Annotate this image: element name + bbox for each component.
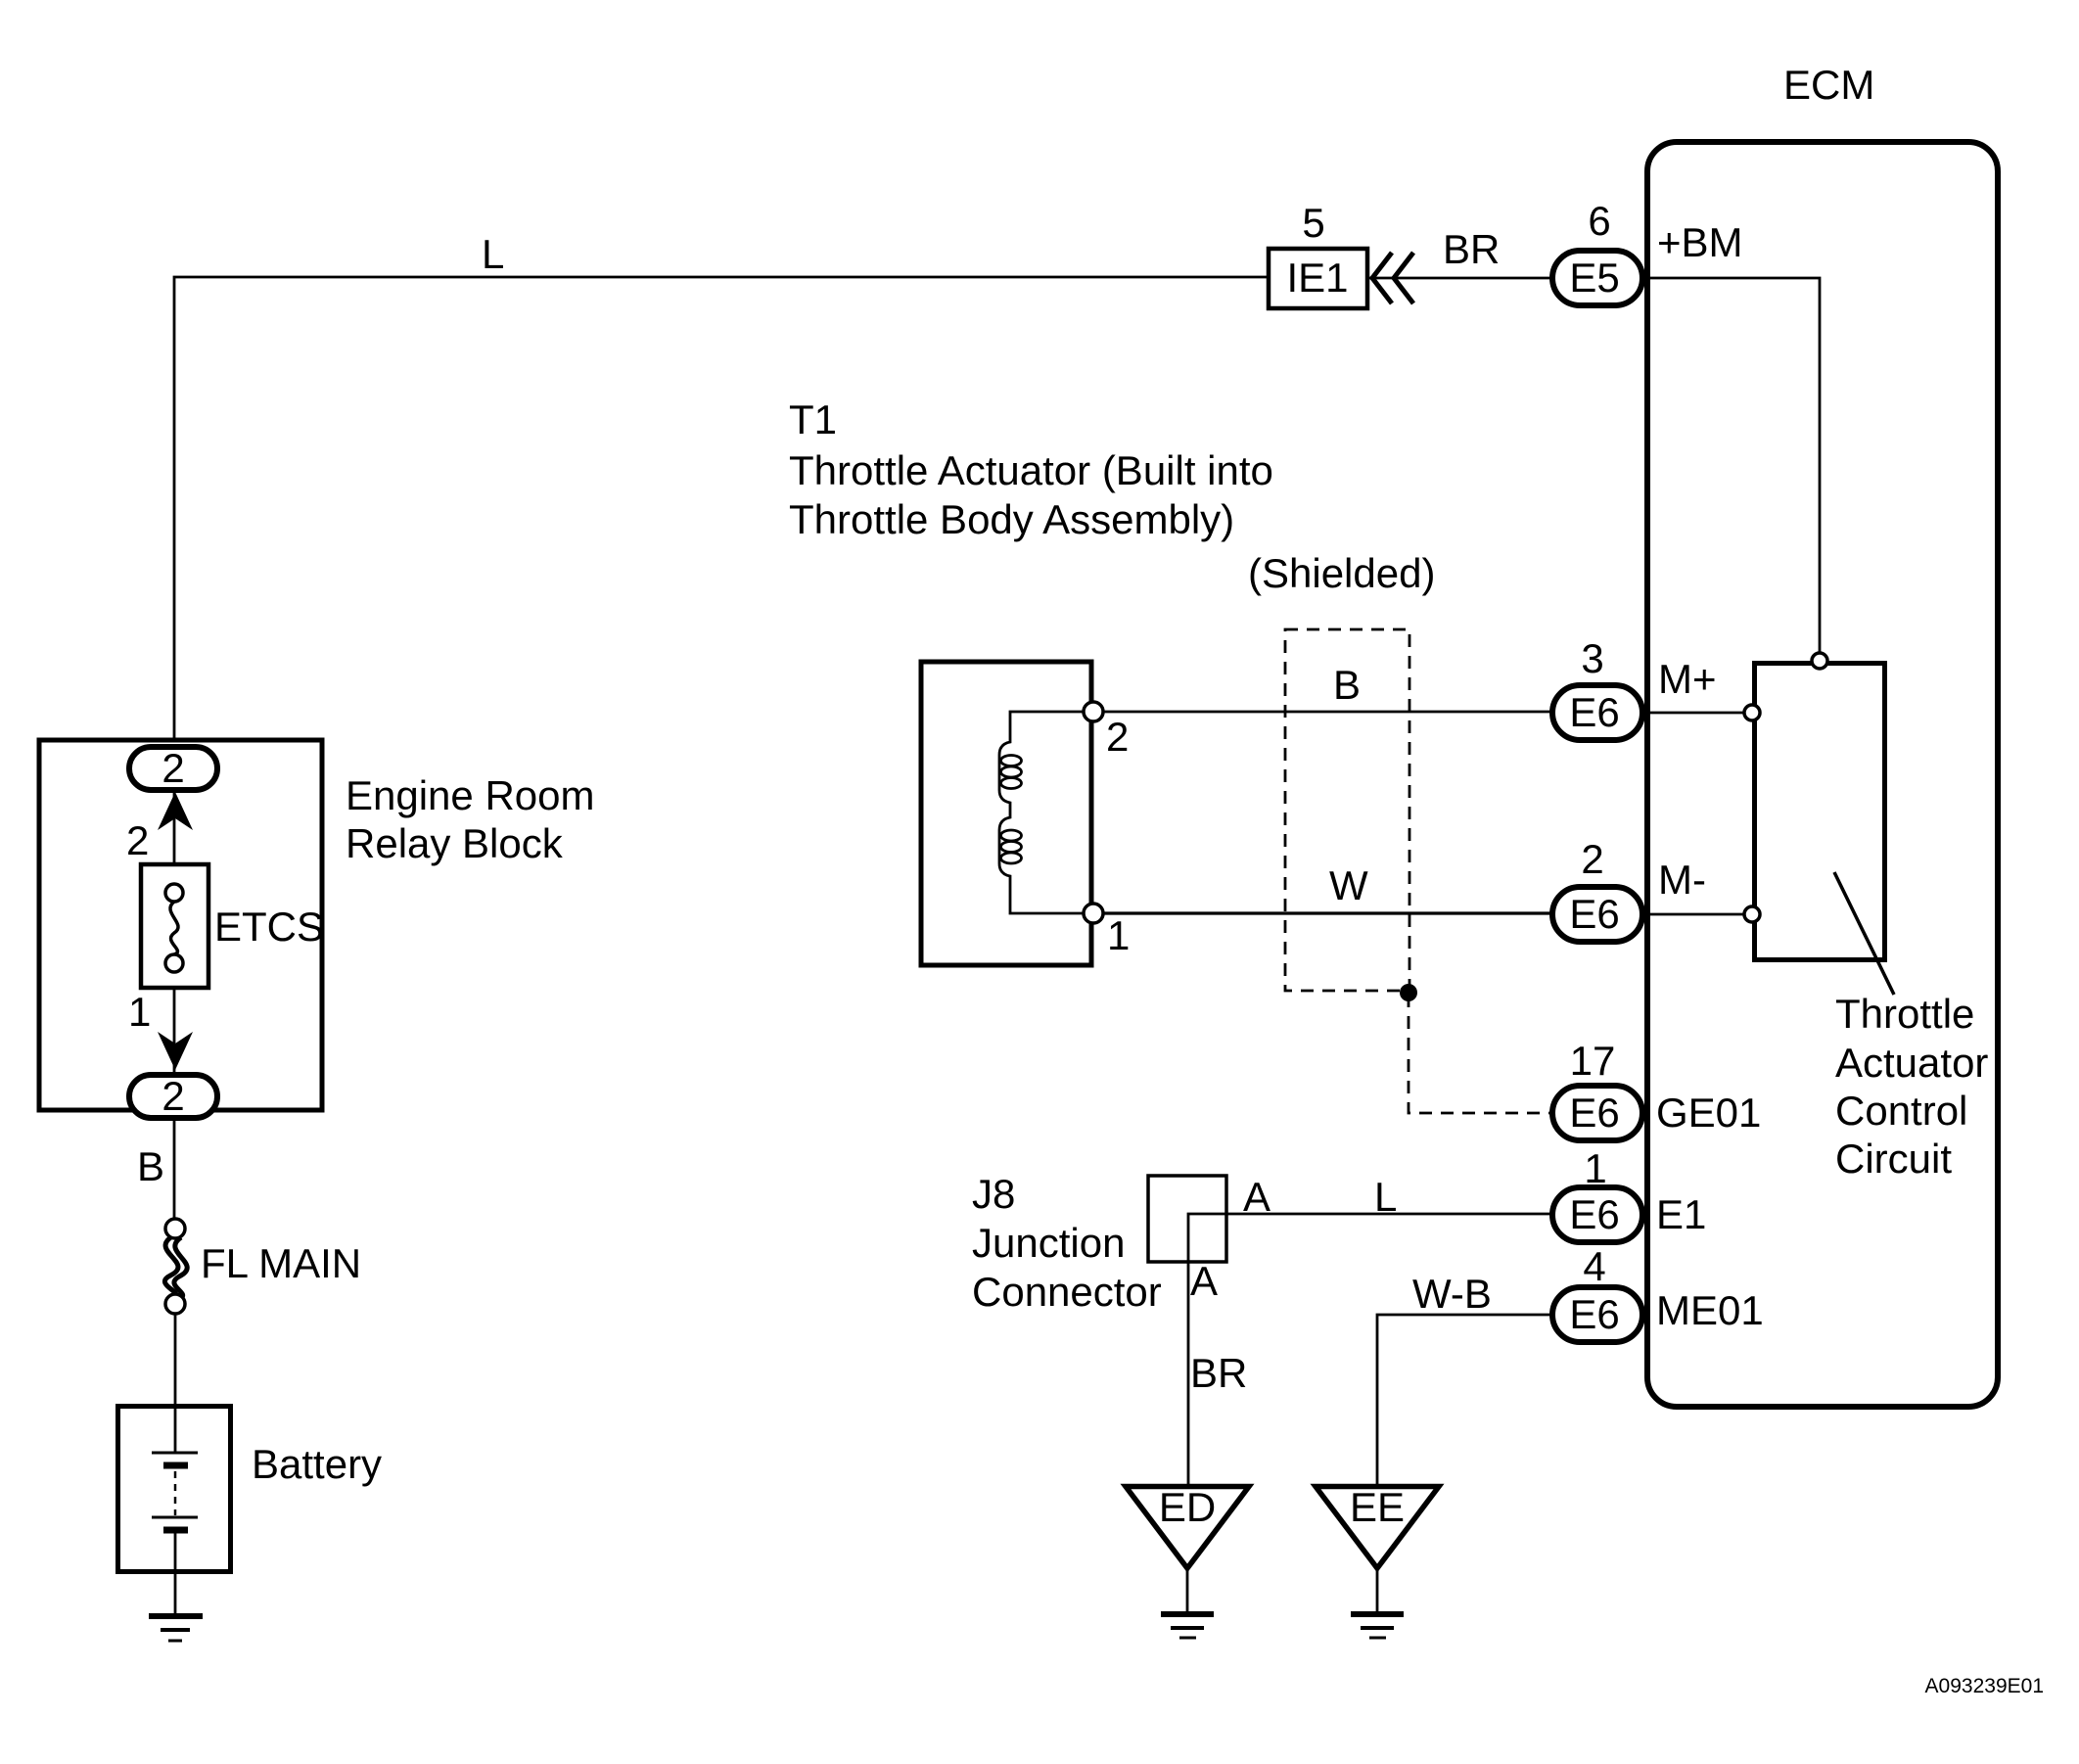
svg-text:2: 2 [162, 745, 184, 791]
wire E1 from J8 to E6 pin1 [1188, 1214, 1551, 1484]
label B [1333, 662, 1361, 708]
terminal 2 circle [1084, 702, 1103, 721]
battery ground symbol [149, 1616, 203, 1641]
battery ground stem [174, 1574, 177, 1614]
ground triangle ED [1126, 1484, 1249, 1568]
pin 1 label [128, 989, 151, 1035]
throttle actuator control circuit box [1755, 664, 1895, 996]
svg-text:2: 2 [162, 1073, 184, 1119]
svg-text:E6: E6 [1569, 1090, 1619, 1136]
svg-text:M+: M+ [1658, 656, 1717, 702]
wire B below relay block [173, 1118, 176, 1220]
svg-text:17: 17 [1570, 1038, 1616, 1084]
svg-text:(Shielded): (Shielded) [1248, 550, 1435, 596]
connector oval E6 pin3 M+ [1552, 685, 1642, 740]
label L (E1 wire) [1374, 1174, 1397, 1220]
svg-text:Circuit: Circuit [1835, 1136, 1952, 1182]
relay chain wire [173, 793, 176, 1075]
pin 6 label [1588, 198, 1610, 244]
svg-text:Junction: Junction [972, 1220, 1125, 1266]
wire L from battery chain to IE1 [174, 277, 1269, 742]
label ECM [1783, 62, 1874, 108]
svg-text:ED: ED [1159, 1484, 1216, 1530]
wire M+ link [1641, 712, 1748, 715]
svg-text:W-B: W-B [1412, 1271, 1492, 1317]
svg-text:6: 6 [1588, 198, 1610, 244]
T1 title text [789, 396, 1273, 542]
label A right of J8 [1243, 1174, 1270, 1220]
motor coil [999, 712, 1093, 913]
ED ground symbol [1161, 1614, 1214, 1638]
svg-text:2: 2 [1581, 836, 1603, 882]
connector oval E6 pin17 GE01 [1552, 1086, 1642, 1140]
ground triangle EE [1316, 1484, 1439, 1568]
svg-text:E6: E6 [1569, 689, 1619, 735]
throttle actuator T1 box [921, 662, 1091, 965]
label GE01 [1656, 1090, 1761, 1136]
label ETCS [214, 904, 324, 950]
engine room relay block box [39, 740, 322, 1110]
control box M- node circle [1744, 906, 1760, 922]
label A below J8 [1190, 1258, 1218, 1304]
svg-text:J8: J8 [972, 1171, 1015, 1217]
svg-text:L: L [482, 231, 504, 277]
label +BM [1657, 219, 1743, 265]
control box M+ node circle [1744, 705, 1760, 720]
relay top oval 2 [129, 745, 217, 791]
svg-text:E5: E5 [1569, 255, 1619, 301]
battery box [118, 1407, 231, 1572]
pin 2 label [126, 817, 149, 863]
svg-text:E6: E6 [1569, 891, 1619, 937]
label L [482, 231, 504, 277]
label J8 Junction Connector [972, 1171, 1162, 1315]
battery symbol [152, 1406, 198, 1574]
connector oval E5 [1552, 251, 1642, 305]
svg-text:Connector: Connector [972, 1269, 1162, 1315]
J8 junction connector box [1148, 1176, 1226, 1262]
fusible link FL MAIN [164, 1219, 187, 1314]
label E1 [1656, 1191, 1706, 1237]
up arrow [158, 792, 193, 830]
svg-text:2: 2 [1106, 714, 1129, 760]
svg-text:2: 2 [126, 817, 149, 863]
label B left [137, 1143, 164, 1189]
svg-text:Relay Block: Relay Block [346, 820, 564, 866]
svg-text:T1: T1 [789, 396, 837, 442]
connector IE1 [1269, 249, 1367, 308]
label Throttle Actuator Control Circuit [1835, 991, 1988, 1182]
svg-text:B: B [1333, 662, 1361, 708]
svg-text:EE: EE [1350, 1484, 1405, 1530]
pin 2 label [1581, 836, 1603, 882]
svg-text:ME01: ME01 [1656, 1287, 1764, 1333]
connector oval E6 pin1 E1 [1552, 1187, 1642, 1242]
wire BR from IE1 to E5 [1369, 277, 1551, 280]
connector oval E6 pin2 M- [1552, 887, 1642, 942]
figure number [1925, 1675, 2044, 1697]
wire M- link [1641, 913, 1748, 916]
wire W-B from EE to E6 pin4 [1377, 1315, 1551, 1484]
pin 1 label [1584, 1145, 1606, 1191]
connector oval E6 pin4 ME01 [1552, 1287, 1642, 1342]
relay bottom oval 2 [129, 1073, 217, 1119]
(Shielded) label [1248, 550, 1435, 596]
svg-text:5: 5 [1302, 200, 1324, 246]
terminal 1 label [1107, 912, 1130, 958]
pin 4 label [1583, 1243, 1605, 1289]
pin 5 label [1302, 200, 1324, 246]
down arrow [158, 1032, 193, 1070]
svg-text:A: A [1190, 1258, 1218, 1304]
svg-text:Throttle Actuator (Built into: Throttle Actuator (Built into [789, 447, 1273, 493]
terminal 1 circle [1084, 904, 1103, 923]
EE ground symbol [1351, 1614, 1404, 1638]
svg-text:A093239E01: A093239E01 [1925, 1675, 2044, 1697]
label BR [1443, 226, 1500, 272]
svg-text:Control: Control [1835, 1088, 1967, 1134]
wire +BM from E5 into ECM down to control circuit [1641, 278, 1820, 655]
label FL MAIN [201, 1240, 361, 1286]
shield drain dashed wire to GE01 [1409, 995, 1549, 1113]
svg-text:1: 1 [128, 989, 151, 1035]
fuse ETCS box [141, 864, 208, 988]
shield junction dot [1400, 984, 1417, 1001]
svg-text:W: W [1329, 862, 1368, 908]
label BR lower [1190, 1350, 1247, 1396]
svg-text:1: 1 [1584, 1145, 1606, 1191]
svg-text:L: L [1374, 1174, 1397, 1220]
wire B from terminal 2 to E6 pin3 [1093, 711, 1551, 714]
svg-text:Throttle: Throttle [1835, 991, 1974, 1037]
EE ground stem [1376, 1568, 1379, 1612]
svg-text:3: 3 [1581, 635, 1603, 681]
svg-text:Engine Room: Engine Room [346, 772, 594, 818]
svg-text:ECM: ECM [1783, 62, 1874, 108]
wire to battery [174, 1314, 177, 1406]
svg-text:GE01: GE01 [1656, 1090, 1761, 1136]
shield dashed box [1285, 629, 1409, 991]
ED ground stem [1186, 1568, 1189, 1612]
label M+ [1658, 656, 1717, 702]
svg-text:BR: BR [1190, 1350, 1247, 1396]
svg-text:E6: E6 [1569, 1191, 1619, 1237]
svg-text:4: 4 [1583, 1243, 1605, 1289]
label W [1329, 862, 1368, 908]
svg-text:E6: E6 [1569, 1291, 1619, 1337]
svg-text:BR: BR [1443, 226, 1500, 272]
svg-text:1: 1 [1107, 912, 1130, 958]
svg-text:Throttle Body Assembly): Throttle Body Assembly) [789, 496, 1234, 542]
label Battery [252, 1441, 382, 1487]
svg-text:B: B [137, 1143, 164, 1189]
svg-text:A: A [1243, 1174, 1270, 1220]
svg-text:FL MAIN: FL MAIN [201, 1240, 361, 1286]
label ME01 [1656, 1287, 1764, 1333]
svg-text:Battery: Battery [252, 1441, 382, 1487]
svg-text:+BM: +BM [1657, 219, 1743, 265]
double chevron arrow [1372, 253, 1413, 303]
svg-text:IE1: IE1 [1286, 255, 1348, 301]
pin 3 label [1581, 635, 1603, 681]
ECM box [1647, 142, 1998, 1407]
pin 17 label [1570, 1038, 1616, 1084]
svg-text:E1: E1 [1656, 1191, 1706, 1237]
wire W from terminal 1 to E6 pin2 [1093, 911, 1551, 914]
fuse ETCS element [165, 884, 183, 972]
svg-text:Actuator: Actuator [1835, 1040, 1988, 1086]
svg-text:M-: M- [1658, 857, 1706, 903]
label M- [1658, 857, 1706, 903]
label W-B [1412, 1271, 1492, 1317]
svg-text:ETCS: ETCS [214, 904, 324, 950]
control box top node circle [1812, 653, 1827, 669]
terminal 2 label [1106, 714, 1129, 760]
label Engine Room Relay Block [346, 772, 594, 866]
